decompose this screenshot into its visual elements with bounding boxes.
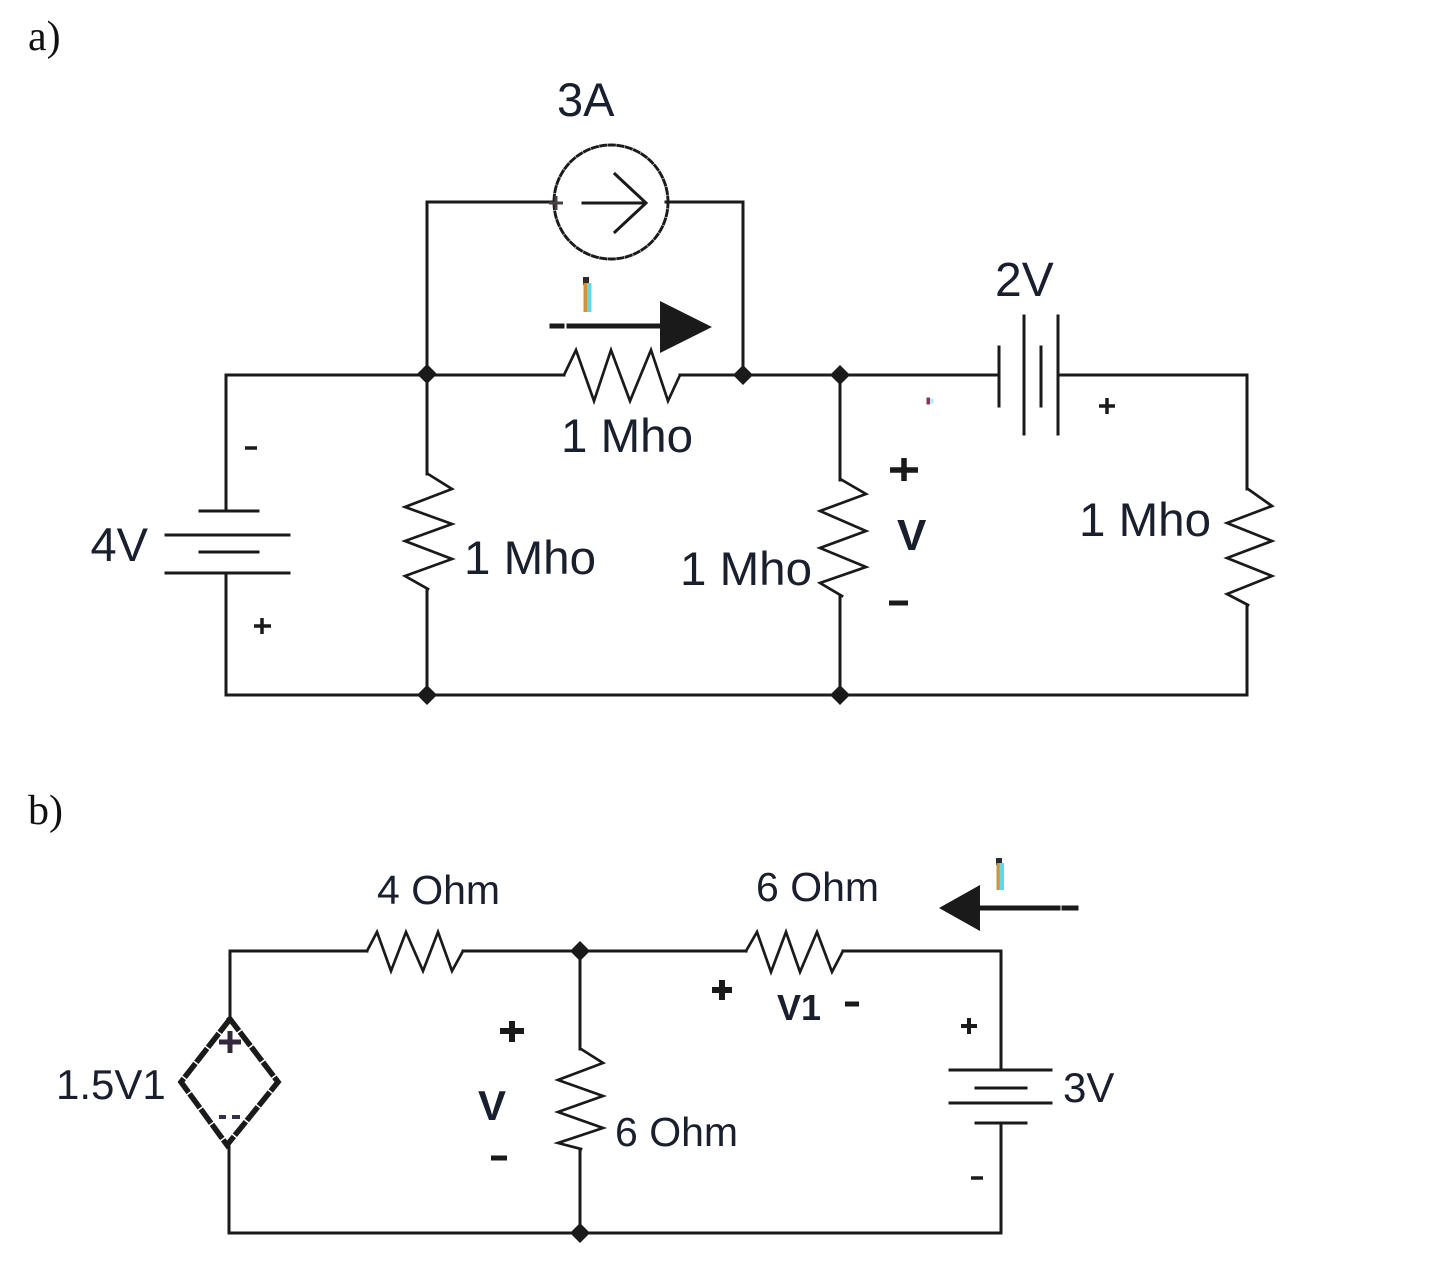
dependent source diamond: [181, 1019, 278, 1145]
svg-text:1 Mho: 1 Mho: [680, 543, 812, 596]
svg-text:6 Ohm: 6 Ohm: [756, 864, 879, 910]
labels + V - (circuit a): [890, 458, 918, 481]
labels + V1 - (circuit b): [712, 980, 732, 1000]
svg-text:3V: 3V: [1063, 1064, 1114, 1111]
battery 3V: [950, 1069, 1051, 1072]
svg-text:1.5V1: 1.5V1: [56, 1061, 166, 1108]
wire top-loop right (from current source right, down to main wire): [666, 202, 743, 375]
svg-text:V: V: [897, 511, 927, 560]
svg-text:6 Ohm: 6 Ohm: [615, 1109, 738, 1155]
label I (circuit b): [996, 858, 1002, 865]
svg-text:1 Mho: 1 Mho: [464, 532, 596, 585]
wire top left (circuit b): [230, 950, 367, 953]
resistor 6 Ohm horizontal: [746, 932, 843, 972]
label I (circuit a): [583, 277, 589, 285]
current arrow I (circuit a): [552, 324, 562, 329]
junction dots (circuit b): [570, 941, 590, 961]
resistor 1 Mho horizontal: [564, 350, 680, 401]
current source 3A: [554, 145, 668, 259]
wire bottom (circuit b): [229, 1232, 1001, 1235]
polarity marks 3V: [961, 1018, 977, 1034]
svg-text:1 Mho: 1 Mho: [561, 410, 693, 463]
resistor 1 Mho right: [1227, 489, 1272, 605]
branch resistor 1 Mho (middle-right, x=840): [839, 375, 842, 480]
wire left side with battery 4V: [225, 375, 228, 511]
wire top middle (circuit b): [463, 950, 746, 953]
battery 4V: [200, 510, 258, 513]
polarity marks 2V: [927, 398, 931, 405]
svg-text:4V: 4V: [91, 518, 149, 571]
wire bottom (circuit a): [226, 694, 1247, 697]
battery 2V: [998, 347, 1001, 406]
svg-text:1 Mho: 1 Mho: [1079, 494, 1211, 547]
wire right down: [1246, 605, 1249, 695]
svg-text:V1: V1: [777, 987, 821, 1028]
right branch with battery 3V: [1000, 951, 1003, 1070]
svg-text:2V: 2V: [995, 254, 1054, 307]
branch resistor 1 Mho (middle-left, x=427): [426, 374, 429, 474]
resistor 4 Ohm: [367, 932, 463, 971]
wire main horizontal middle: [680, 374, 998, 377]
labels + V - (circuit b): [500, 1021, 524, 1042]
svg-text:4 Ohm: 4 Ohm: [377, 867, 500, 913]
wire top right: [1058, 375, 1247, 489]
middle branch resistor 6 Ohm vertical: [579, 951, 582, 1049]
svg-text:b): b): [28, 788, 63, 834]
current arrow I (circuit b): [939, 885, 980, 931]
junction dots (circuit a): [417, 364, 437, 384]
left branch with dependent source 1.5V1: [229, 951, 232, 1019]
polarity marks 4V: [245, 446, 257, 450]
svg-text:3A: 3A: [557, 73, 615, 126]
wire top right (circuit b): [843, 950, 1001, 953]
wire main horizontal left: [226, 374, 564, 377]
wire top-loop left (from junction up and right to current source): [427, 202, 556, 374]
svg-text:a): a): [28, 14, 61, 60]
svg-text:V: V: [478, 1082, 506, 1129]
